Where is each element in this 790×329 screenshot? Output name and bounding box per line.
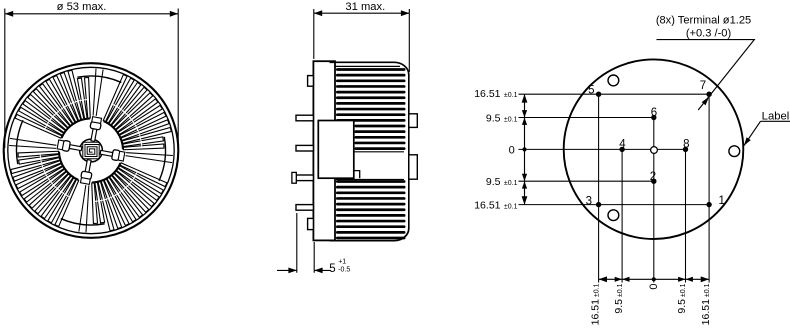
svg-text:9.5 ±0.1: 9.5 ±0.1 [676,283,688,313]
svg-text:+1: +1 [338,258,346,265]
svg-text:±0.1: ±0.1 [504,92,518,99]
svg-text:2: 2 [650,171,656,183]
svg-text:3: 3 [586,195,592,207]
svg-text:9.5: 9.5 [486,112,501,124]
svg-text:9.5: 9.5 [486,176,501,188]
svg-text:5: 5 [588,84,594,96]
svg-text:0: 0 [648,284,660,290]
svg-text:ø 53 max.: ø 53 max. [57,1,107,13]
svg-text:-0.5: -0.5 [338,266,350,273]
svg-text:±0.1: ±0.1 [504,116,518,123]
svg-text:16.51: 16.51 [474,88,500,100]
svg-text:7: 7 [700,80,706,92]
svg-text:31 max.: 31 max. [345,1,385,13]
svg-text:8: 8 [683,139,689,151]
svg-text:0: 0 [509,145,515,157]
svg-text:(8x) Terminal ø1.25: (8x) Terminal ø1.25 [656,14,751,26]
svg-text:4: 4 [619,139,626,151]
svg-text:9.5 ±0.1: 9.5 ±0.1 [613,283,625,313]
svg-text:±0.1: ±0.1 [504,180,518,187]
svg-text:16.51 ±0.1: 16.51 ±0.1 [700,283,712,325]
svg-text:Label: Label [762,110,790,122]
svg-text:±0.1: ±0.1 [504,203,518,210]
svg-text:16.51: 16.51 [474,199,500,211]
svg-text:6: 6 [651,107,657,119]
svg-text:5: 5 [329,263,335,275]
svg-text:1: 1 [719,195,725,207]
svg-text:16.51 ±0.1: 16.51 ±0.1 [589,283,601,325]
svg-text:(+0.3 /-0): (+0.3 /-0) [686,28,731,40]
